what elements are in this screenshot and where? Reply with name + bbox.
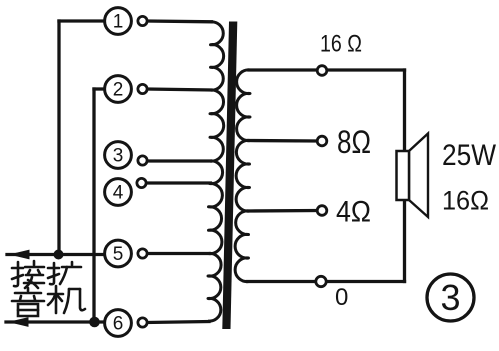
svg-text:0: 0 [335, 284, 348, 311]
svg-text:16Ω: 16Ω [442, 186, 489, 216]
svg-text:4: 4 [113, 183, 124, 204]
svg-text:8Ω: 8Ω [337, 124, 371, 160]
svg-text:5: 5 [113, 244, 124, 265]
svg-text:2: 2 [113, 80, 124, 101]
svg-text:16 Ω: 16 Ω [320, 31, 362, 58]
svg-text:3: 3 [440, 277, 460, 318]
svg-text:6: 6 [113, 314, 124, 335]
svg-text:3: 3 [113, 146, 124, 167]
svg-text:4Ω: 4Ω [336, 196, 371, 229]
svg-text:1: 1 [113, 12, 124, 33]
svg-text:25W: 25W [442, 139, 497, 172]
